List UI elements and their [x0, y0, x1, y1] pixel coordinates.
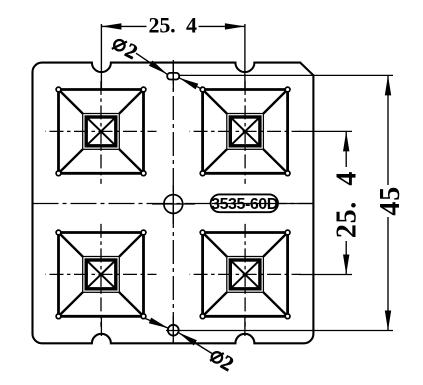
top slot hole (obround): [172, 62, 174, 90]
lens A2 top-right: [190, 79, 301, 184]
bottom round hole: [172, 316, 174, 344]
lens A3 bottom-left: [46, 222, 157, 327]
dimension 25.4 top: extension lines: [100, 24, 102, 89]
vertical main centerline: [172, 58, 174, 345]
leader Ø2 bottom: segments and arrows: [145, 318, 169, 328]
dimension 25.4 middle: dim line: [345, 131, 347, 167]
plate outline: [33, 63, 314, 344]
svg-text:25. 4: 25. 4: [332, 171, 363, 238]
dimension 25.4 top: arrows: [101, 23, 121, 29]
dimension 45 right: extension lines: [179, 74, 393, 76]
center mark crosshair: [152, 203, 195, 205]
lens A1 top-left: [46, 79, 157, 184]
svg-text:3535-60D: 3535-60D: [211, 196, 278, 213]
part label stadium 3535-60D: [211, 194, 314, 213]
dimension 25.4 middle: arrows: [343, 131, 349, 151]
lens A4 bottom-right: [190, 222, 301, 327]
svg-text:25. 4: 25. 4: [149, 12, 198, 37]
label Ø2 bottom: [210, 352, 224, 362]
svg-text:45: 45: [375, 186, 406, 216]
center mark circle: [164, 195, 183, 214]
horizontal main centerline: [33, 203, 314, 205]
bottom notch centerline right: [244, 318, 246, 336]
dimension 25.4 middle: extension lines: [299, 130, 352, 132]
leader Ø2 top: segments and arrows: [136, 53, 167, 74]
label Ø2 top: [112, 40, 127, 50]
bottom notch centerline left: [100, 318, 102, 336]
dimension 25.4 top: dim line: [101, 25, 146, 27]
dimension 45 right: dim line: [387, 75, 389, 185]
dimension 45 right: arrows: [385, 75, 391, 95]
